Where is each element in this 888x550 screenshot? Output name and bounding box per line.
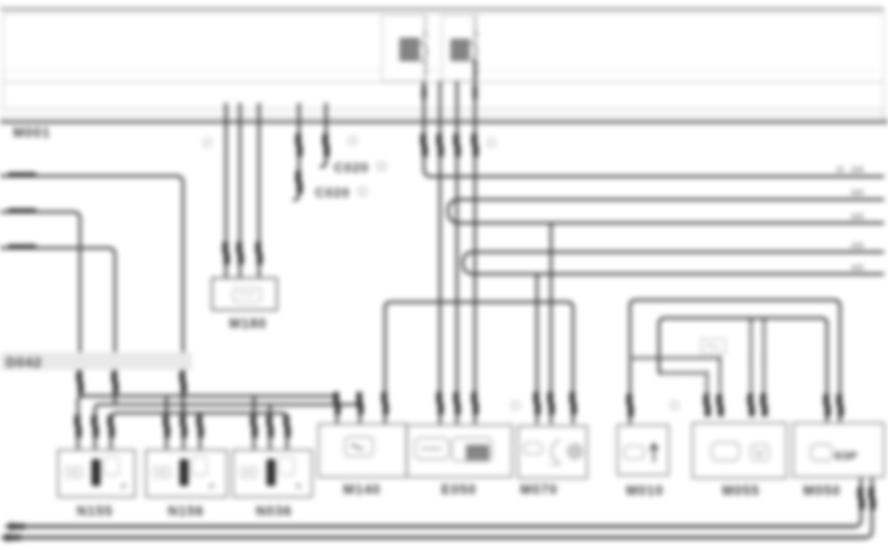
svg-text:A05: A05 [851, 241, 864, 250]
svg-text:E050: E050 [441, 482, 477, 497]
svg-text:M180: M180 [229, 316, 267, 331]
svg-text:A05: A05 [851, 212, 864, 221]
svg-text:3Z: 3Z [836, 165, 845, 174]
svg-text:M070: M070 [520, 482, 558, 497]
svg-text:M001: M001 [13, 125, 51, 140]
svg-text:A05: A05 [851, 263, 864, 272]
svg-text:N156: N156 [168, 504, 204, 519]
svg-text:M050: M050 [803, 483, 841, 498]
svg-text:M010: M010 [626, 483, 664, 498]
svg-text:C020: C020 [334, 160, 369, 175]
svg-text:N155: N155 [77, 504, 113, 519]
svg-text:M140: M140 [343, 482, 381, 497]
svg-text:M055: M055 [722, 483, 760, 498]
svg-text:C020: C020 [315, 185, 350, 200]
svg-text:A05: A05 [851, 188, 864, 197]
svg-text:A06: A06 [851, 165, 864, 174]
svg-text:N036: N036 [256, 504, 292, 519]
svg-text:D042: D042 [6, 355, 42, 370]
svg-text:ESP: ESP [835, 451, 857, 463]
